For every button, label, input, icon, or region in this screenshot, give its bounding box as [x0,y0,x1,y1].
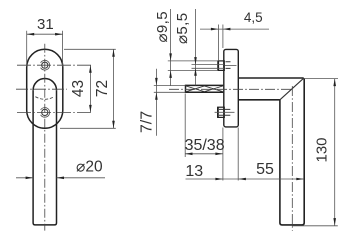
dimension 55: right arrow [296,178,304,181]
dimension 43: dimension line [89,65,91,112]
svg-text:⌀5,5: ⌀5,5 [174,13,191,44]
right view: handle axis horizontal centerline [169,88,292,90]
dimension 43: bottom arrow [89,105,92,113]
right view: top screw thread lines inside rosette [226,62,231,69]
right view: bottom screw head [218,107,225,117]
right view: grip vertical centerline [291,86,293,231]
dimension 72: dimension line [113,49,115,128]
left view: neck dome (handle neck top arc) [33,79,56,91]
dimension 13: arrow at rosette left face [215,178,223,181]
svg-text:7/7: 7/7 [139,111,156,133]
dimension 72: extension lines [60,49,116,128]
svg-text:43: 43 [70,80,87,97]
dimension D5,5: dimension line [195,9,197,85]
right view: top screw head [218,61,224,71]
dimension 130: dimension line [334,79,336,226]
right view: spindle bottom edge [186,91,224,93]
svg-text:⌀20: ⌀20 [76,159,103,176]
dimension D9,5: dimension line [170,9,172,86]
dimension D5,5: arrows [194,57,197,65]
right view: spindle square-end cross pattern [186,86,223,92]
svg-text:55: 55 [256,161,274,178]
dimension 35/38: arrows [185,153,193,156]
left view: bottom hole horizontal centerline [17,111,93,113]
right view: handle neck top edge [238,77,303,79]
dimension 31: dimension line [27,33,63,35]
dimension 72: top arrow [112,49,115,57]
left view: vertical centerline [44,44,46,231]
dimension D9,5: arrows [169,53,172,61]
dimension 13 and 55: shared dimension line [186,178,304,180]
dimension D20: dimension line left segment with arrow [16,177,33,179]
dimension 31: extension lines [27,31,63,67]
dimension 4,5: right arrow [223,28,231,31]
svg-text:72: 72 [94,80,111,97]
dimension 35/38: extension lines [185,94,238,181]
right view: spindle end cap [185,85,187,93]
dimension 31: right arrow [55,33,63,36]
dimension 7/7: arrows [155,78,158,86]
right view: top screw axis line [225,65,237,67]
dimension 31: left arrow [27,33,35,36]
dimension 35/38: dimension line [185,153,223,155]
dimension 55: left arrow [238,178,246,181]
svg-text:⌀9,5: ⌀9,5 [154,11,171,42]
dimension 130: arrows [333,79,336,87]
right view: bottom screw head left face (thick) [217,107,219,117]
right view: corner chamfer edge [280,78,304,100]
left view: hidden fillet arc (dashed) [35,97,54,100]
right view: grip outline [280,78,304,225]
svg-text:4,5: 4,5 [244,10,263,25]
svg-text:130: 130 [314,137,331,162]
right view: handle neck bottom edge [238,99,280,101]
right view: rosette side outline [224,49,239,127]
right view: top screw head left face (thick) [217,61,219,71]
dimension D20: dimension line right segment with arrow [57,177,106,179]
dimension 43: top arrow [89,65,92,73]
svg-text:31: 31 [37,16,54,33]
dimension 7/7: extension lines [154,85,186,92]
left view: spindle axis horizontal centerline [16,88,67,90]
dimension 4,5: extension lines [218,25,223,61]
dimension 4,5: dimension line [200,28,269,30]
left view: top screw hole inner circle [42,62,48,68]
svg-text:13: 13 [185,163,203,180]
svg-text:35/38: 35/38 [185,137,225,154]
left view: grip bar [33,90,56,225]
dimension 130: extension lines [292,79,338,226]
left view: top screw hole thread arc [41,60,50,70]
left view: top hole horizontal centerline [17,64,93,66]
right view: bottom screw centerline [215,111,235,113]
right view: top screw shank lines [192,65,225,69]
right view: bottom screw thread lines [219,109,230,115]
dimension 7/7: dimension line [155,69,157,136]
right view: top screw head extension lines [168,61,218,71]
right view: spindle top edge [186,84,224,86]
left view: bottom screw hole inner circle [42,109,48,115]
dimension 72: bottom arrow [112,121,115,129]
dimension 4,5: left arrow [211,28,219,31]
left view: bottom screw hole thread arc [41,108,50,118]
left view: plate outline (stadium rosette) [27,49,63,128]
